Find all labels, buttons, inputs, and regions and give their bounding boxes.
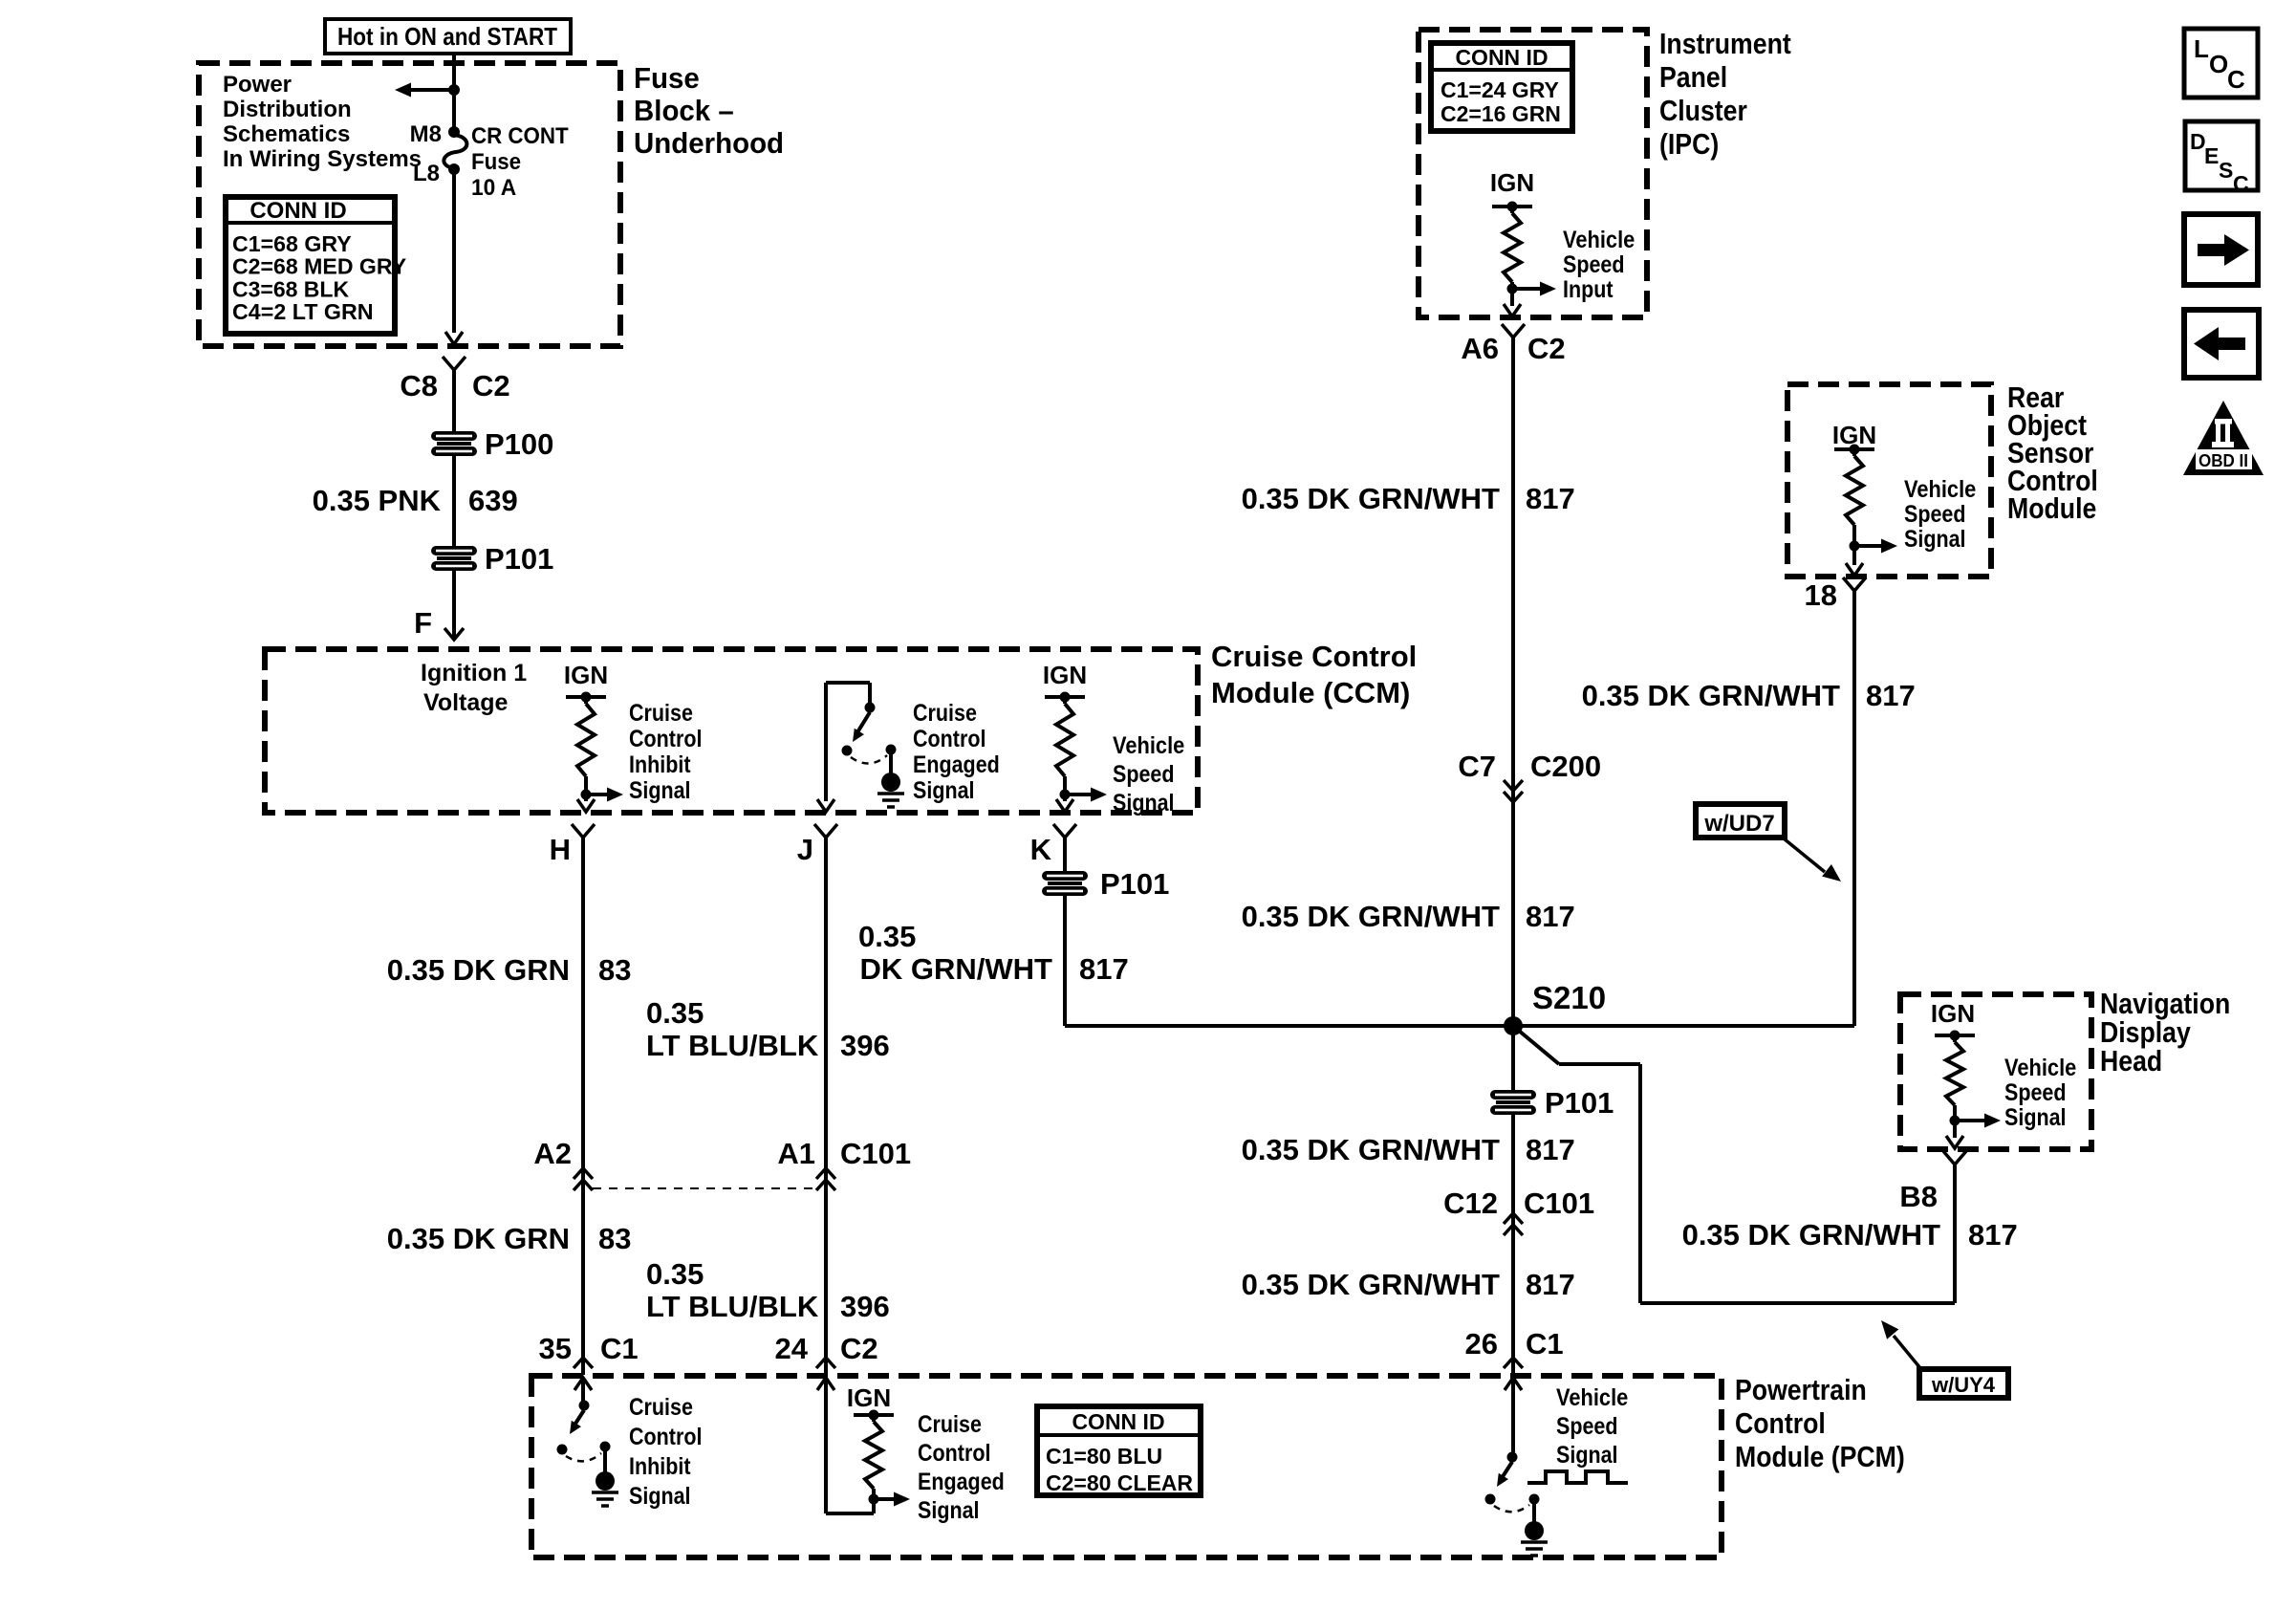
svg-text:Underhood: Underhood	[634, 126, 784, 160]
svg-text:Signal: Signal	[918, 1497, 980, 1524]
svg-text:Cruise: Cruise	[629, 1394, 693, 1421]
svg-text:83: 83	[598, 953, 631, 987]
svg-text:A6: A6	[1461, 332, 1499, 365]
svg-text:Signal: Signal	[2004, 1104, 2067, 1131]
svg-text:Panel: Panel	[1659, 60, 1727, 94]
wire fuse to fuse-block exit	[452, 174, 456, 333]
connector A6 / C2	[1502, 324, 1525, 337]
svg-text:C200: C200	[1530, 750, 1601, 783]
svg-text:0.35: 0.35	[646, 996, 704, 1030]
pin 18	[1843, 577, 1866, 591]
svg-text:0.35 DK GRN/WHT: 0.35 DK GRN/WHT	[1242, 482, 1500, 515]
connector ID table (PCM)	[1037, 1406, 1201, 1495]
svg-text:Control: Control	[1735, 1406, 1826, 1440]
svg-text:817: 817	[1526, 1133, 1575, 1166]
svg-text:OBD II: OBD II	[2199, 451, 2248, 470]
svg-text:Vehicle: Vehicle	[1904, 476, 1976, 503]
svg-text:Fuse: Fuse	[471, 149, 521, 175]
svg-text:Inhibit: Inhibit	[629, 751, 691, 778]
svg-text:C7: C7	[1458, 750, 1496, 783]
svg-text:0.35 DK GRN/WHT: 0.35 DK GRN/WHT	[1242, 1133, 1500, 1166]
svg-text:F: F	[414, 606, 432, 640]
svg-text:E: E	[2204, 143, 2219, 168]
icon OBD II	[2183, 401, 2264, 475]
svg-text:CONN ID: CONN ID	[1455, 45, 1548, 70]
svg-text:Inhibit: Inhibit	[629, 1453, 691, 1480]
svg-text:Control: Control	[629, 1424, 702, 1450]
svg-text:L: L	[2194, 34, 2209, 63]
svg-text:Cruise Control: Cruise Control	[1211, 640, 1417, 673]
svg-text:Distribution: Distribution	[223, 97, 352, 122]
svg-text:C101: C101	[1524, 1186, 1594, 1220]
svg-text:Fuse: Fuse	[634, 61, 700, 95]
wire H (DK GRN 83)	[581, 838, 585, 1375]
w/UY4 arrow	[1894, 1336, 1920, 1368]
pass-through grommet P100	[431, 431, 477, 441]
svg-text:Speed: Speed	[2004, 1079, 2067, 1106]
svg-text:Speed: Speed	[1556, 1413, 1618, 1440]
icon LOC	[2184, 29, 2258, 98]
svg-text:0.35 DK GRN: 0.35 DK GRN	[387, 1222, 570, 1255]
svg-text:P101: P101	[1545, 1086, 1614, 1120]
svg-text:C2=16 GRN: C2=16 GRN	[1440, 101, 1561, 126]
wire S210 to PCM	[1511, 1026, 1515, 1090]
svg-text:IGN: IGN	[1490, 168, 1534, 197]
svg-text:Vehicle: Vehicle	[1563, 227, 1635, 253]
rear sensor wire down to splice bus	[1852, 591, 1856, 1026]
wire K to P101	[1063, 838, 1067, 871]
svg-text:Powertrain: Powertrain	[1735, 1373, 1867, 1406]
svg-text:(IPC): (IPC)	[1659, 127, 1719, 161]
instrument panel cluster dashed box	[1419, 30, 1647, 317]
svg-text:0.35 DK GRN/WHT: 0.35 DK GRN/WHT	[1242, 1268, 1500, 1301]
pass-through grommet P101 (upper)	[431, 546, 477, 555]
svg-text:639: 639	[468, 484, 518, 517]
svg-text:Speed: Speed	[1563, 251, 1625, 278]
CCM cruise engaged switch	[824, 683, 828, 801]
navigation display head dashed box	[1900, 994, 2091, 1149]
svg-text:Signal: Signal	[1556, 1442, 1618, 1469]
svg-text:C4=2 LT GRN: C4=2 LT GRN	[232, 299, 374, 324]
svg-text:817: 817	[1526, 900, 1575, 933]
wire C8 to P100	[452, 370, 456, 431]
svg-text:817: 817	[1866, 679, 1916, 712]
PCM engaged resistor entry wire	[817, 1378, 834, 1390]
svg-text:H: H	[550, 833, 571, 866]
svg-text:A1: A1	[777, 1137, 815, 1170]
rear object sensor control module dashed box	[1787, 384, 1991, 577]
svg-text:Signal: Signal	[1904, 526, 1966, 553]
pass-through grommet P101 (center)	[1490, 1090, 1536, 1099]
svg-text:35: 35	[539, 1332, 572, 1365]
svg-text:IGN: IGN	[1931, 999, 1975, 1028]
cruise control module dashed box	[265, 649, 1198, 813]
w/UD7 arrow	[1784, 838, 1825, 872]
svg-text:Signal: Signal	[629, 1483, 691, 1510]
option flag w/UY4	[1919, 1369, 2008, 1398]
svg-text:J: J	[797, 833, 813, 866]
wire label 0.35 PNK 639	[452, 456, 456, 546]
svg-text:Speed: Speed	[1904, 501, 1966, 528]
svg-text:396: 396	[840, 1029, 890, 1062]
wire K to splice bus	[1063, 896, 1067, 1026]
fuse block exit arrow	[445, 332, 463, 344]
icon arrow right	[2184, 214, 2258, 285]
svg-text:817: 817	[1079, 952, 1129, 986]
svg-text:10 A: 10 A	[471, 175, 516, 201]
svg-text:817: 817	[1526, 482, 1575, 515]
svg-text:S210: S210	[1532, 980, 1606, 1015]
svg-text:C: C	[2227, 65, 2245, 94]
dashed connector link A2-A1	[593, 1187, 814, 1189]
svg-text:CONN ID: CONN ID	[1072, 1409, 1164, 1434]
svg-text:C: C	[2233, 171, 2249, 196]
svg-text:Instrument: Instrument	[1659, 27, 1791, 60]
svg-text:B8: B8	[1899, 1180, 1938, 1213]
pin B8	[1943, 1151, 1966, 1165]
svg-text:Vehicle: Vehicle	[1113, 732, 1184, 759]
svg-text:IGN: IGN	[1043, 661, 1087, 689]
svg-text:Head: Head	[2100, 1044, 2162, 1078]
PCM vehicle speed switch	[1505, 1378, 1522, 1390]
svg-text:DK GRN/WHT: DK GRN/WHT	[860, 952, 1053, 986]
svg-text:CR CONT: CR CONT	[471, 123, 569, 149]
svg-text:IGN: IGN	[847, 1383, 891, 1412]
svg-text:817: 817	[1968, 1218, 2018, 1252]
PCM cruise inhibit switch	[574, 1378, 592, 1390]
wire S210 to navigation display head (stepped)	[1513, 1026, 1559, 1064]
wire from hot feed to fuse	[452, 54, 456, 129]
svg-text:Engaged: Engaged	[913, 751, 1000, 778]
svg-text:Signal: Signal	[1113, 790, 1175, 816]
svg-text:0.35 DK GRN/WHT: 0.35 DK GRN/WHT	[1242, 900, 1500, 933]
svg-text:Vehicle: Vehicle	[2004, 1055, 2076, 1081]
svg-text:w/UY4: w/UY4	[1931, 1373, 1996, 1397]
svg-text:C12: C12	[1443, 1186, 1498, 1220]
wire J (LT BLU/BLK 396)	[824, 838, 828, 1375]
option flag w/UD7	[1696, 804, 1785, 838]
center wire IPC to S210	[1511, 337, 1515, 1026]
svg-text:C1: C1	[600, 1332, 639, 1365]
svg-text:83: 83	[598, 1222, 631, 1255]
svg-text:P101: P101	[485, 542, 553, 576]
splice S210	[1504, 1016, 1523, 1035]
svg-text:C2: C2	[840, 1332, 878, 1365]
svg-text:In Wiring Systems: In Wiring Systems	[223, 146, 422, 172]
pass-through grommet P101 (K)	[1042, 871, 1088, 881]
svg-text:L8: L8	[413, 161, 440, 186]
pin K	[1053, 824, 1076, 838]
svg-text:LT BLU/BLK: LT BLU/BLK	[646, 1029, 819, 1062]
svg-text:Vehicle: Vehicle	[1556, 1384, 1628, 1411]
svg-text:C2=68 MED GRY: C2=68 MED GRY	[232, 254, 406, 279]
svg-text:Power: Power	[223, 72, 292, 98]
svg-text:K: K	[1030, 833, 1052, 866]
svg-text:24: 24	[775, 1332, 809, 1365]
svg-text:C8: C8	[400, 369, 438, 403]
svg-text:Control: Control	[913, 726, 986, 752]
svg-text:0.35 DK GRN: 0.35 DK GRN	[387, 953, 570, 987]
svg-text:Module (CCM): Module (CCM)	[1211, 676, 1410, 709]
fuse block underhood dashed box	[199, 63, 620, 346]
svg-text:Control: Control	[629, 726, 702, 752]
svg-text:O: O	[2209, 50, 2228, 78]
svg-text:C3=68 BLK: C3=68 BLK	[232, 276, 349, 301]
icon DESC	[2185, 121, 2258, 190]
svg-text:Control: Control	[918, 1440, 990, 1467]
svg-text:C1=80 BLU: C1=80 BLU	[1046, 1444, 1162, 1469]
connector ID table (fuse block)	[226, 197, 395, 334]
svg-text:Input: Input	[1563, 276, 1614, 303]
svg-text:IGN: IGN	[564, 661, 608, 689]
svg-text:Module: Module	[2007, 491, 2096, 525]
svg-text:w/UD7: w/UD7	[1703, 811, 1774, 837]
svg-text:Speed: Speed	[1113, 761, 1175, 788]
svg-text:0.35: 0.35	[646, 1257, 704, 1291]
svg-text:P100: P100	[485, 427, 553, 461]
powertrain control module dashed box	[531, 1376, 1722, 1557]
svg-text:C1=68 GRY: C1=68 GRY	[232, 231, 352, 256]
svg-text:C2: C2	[1527, 332, 1566, 365]
svg-text:Signal: Signal	[629, 777, 691, 804]
svg-text:Module (PCM): Module (PCM)	[1735, 1440, 1905, 1473]
svg-text:Signal: Signal	[913, 777, 975, 804]
svg-text:S: S	[2219, 158, 2233, 183]
svg-text:18: 18	[1805, 578, 1837, 612]
svg-text:Cruise: Cruise	[918, 1411, 982, 1438]
svg-text:Cruise: Cruise	[629, 700, 693, 727]
svg-text:CONN ID: CONN ID	[249, 198, 346, 224]
svg-text:Cluster: Cluster	[1659, 94, 1747, 127]
svg-text:817: 817	[1526, 1268, 1575, 1301]
fuse CR CONT 10A	[448, 126, 460, 138]
icon arrow left	[2184, 310, 2259, 378]
svg-text:LT BLU/BLK: LT BLU/BLK	[646, 1290, 819, 1323]
pin H	[572, 824, 595, 838]
svg-text:C2=80 CLEAR: C2=80 CLEAR	[1046, 1470, 1193, 1495]
svg-text:M8: M8	[410, 121, 442, 147]
vehicle speed pulse waveform	[1527, 1471, 1628, 1483]
svg-text:Ignition 1: Ignition 1	[421, 660, 527, 686]
svg-text:26: 26	[1465, 1327, 1498, 1361]
svg-text:Schematics: Schematics	[223, 121, 350, 147]
svg-text:C101: C101	[840, 1137, 911, 1170]
svg-text:0.35 DK GRN/WHT: 0.35 DK GRN/WHT	[1682, 1218, 1940, 1252]
svg-text:Engaged: Engaged	[918, 1469, 1005, 1495]
connector C8/C2	[443, 357, 466, 370]
branch arrow to power distribution schematics	[448, 84, 460, 96]
splice bus wire K to rear sensor	[1065, 1024, 1854, 1028]
power feed label box "Hot in ON and START"	[325, 19, 571, 54]
svg-text:C2: C2	[472, 369, 510, 403]
svg-text:C1=24 GRY: C1=24 GRY	[1440, 77, 1559, 102]
svg-text:Cruise: Cruise	[913, 700, 977, 727]
connector ID table (IPC)	[1431, 43, 1572, 131]
svg-text:C1: C1	[1526, 1327, 1564, 1361]
svg-text:Hot in ON and START: Hot in ON and START	[337, 22, 557, 51]
svg-text:Voltage: Voltage	[423, 689, 509, 716]
svg-text:A2: A2	[533, 1137, 572, 1170]
svg-text:0.35 PNK: 0.35 PNK	[313, 484, 442, 517]
pin J	[814, 824, 837, 838]
svg-text:Block –: Block –	[634, 94, 734, 127]
svg-text:P101: P101	[1100, 867, 1169, 901]
svg-text:396: 396	[840, 1290, 890, 1323]
wire P101 to terminal F	[452, 571, 456, 639]
svg-text:0.35 DK GRN/WHT: 0.35 DK GRN/WHT	[1582, 679, 1840, 712]
svg-text:0.35: 0.35	[858, 920, 916, 953]
terminal F male end	[444, 628, 464, 640]
